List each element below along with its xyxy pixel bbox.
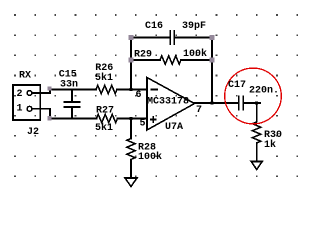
minus sign pin6 [151,89,157,91]
junction: R28 tap on pin 5 wire [130,117,133,120]
op-amp U7A triangle [147,78,195,131]
capacitor C16 [170,31,174,44]
grid dots [14,14,298,177]
svg-text:C17: C17 [228,80,246,91]
node handle: R29 branch left end [129,58,134,63]
svg-text:5k1: 5k1 [95,122,113,134]
node handle: pin 1 wire corner [47,116,51,120]
svg-text:220n.: 220n. [249,85,279,96]
wire R27 to op-amp pin 5 [117,118,147,120]
resistor R28 vertical [127,119,135,179]
capacitor C15 [65,90,80,119]
resistor R29 [160,56,181,64]
svg-text:RX: RX [19,71,31,82]
ground (R28) [125,178,137,187]
svg-text:1k: 1k [264,139,276,151]
wire C17 to R30 node [244,102,260,104]
svg-text:33n: 33n [60,79,78,90]
svg-text:7: 7 [196,105,202,116]
node handle: C16 branch right end [210,35,215,40]
svg-text:5k1: 5k1 [95,72,113,84]
svg-text:100k: 100k [138,151,162,163]
svg-text:39pF: 39pF [182,21,206,32]
plus sign pin5 [151,117,156,122]
resistor R27 [97,114,118,122]
junction: feedback to output wire [211,102,214,105]
node handle: pin 2 wire corner [47,87,51,91]
capacitor C17 [239,97,244,110]
R29 branch wires [131,59,212,61]
junction: feedback to pin 6 wire [130,88,133,91]
feedback left vertical wire [130,37,132,90]
resistor R30 vertical [252,103,260,162]
svg-text:1: 1 [17,104,23,115]
svg-text:R29: R29 [134,49,152,60]
node handle: C16 branch left end [129,35,134,40]
C16 branch wires [131,37,212,39]
wire R26 to op-amp pin 6 [117,89,147,91]
output wire [195,102,239,104]
svg-text:MC33178: MC33178 [147,97,189,108]
resistor R26 [96,85,117,93]
pin 2 circle [27,91,32,96]
ground (R30) [251,162,262,170]
wire pin1 to bottom rail [32,109,97,119]
svg-text:5: 5 [140,118,146,129]
node handle: R29 branch right end [210,58,215,63]
svg-text:J2: J2 [27,127,39,138]
svg-text:C16: C16 [145,21,163,32]
pin 1 circle [27,106,32,111]
svg-text:U7A: U7A [165,122,183,133]
feedback right vertical wire [211,37,213,104]
connector J2 box [13,85,40,120]
red annotation circle [225,68,282,124]
svg-text:2: 2 [17,89,23,100]
junction: R30 tap on output node [255,102,258,105]
svg-text:100k: 100k [183,48,207,60]
svg-text:6: 6 [136,90,142,101]
svg-text:R27: R27 [96,105,114,116]
wire pin2 to top rail [32,90,96,94]
